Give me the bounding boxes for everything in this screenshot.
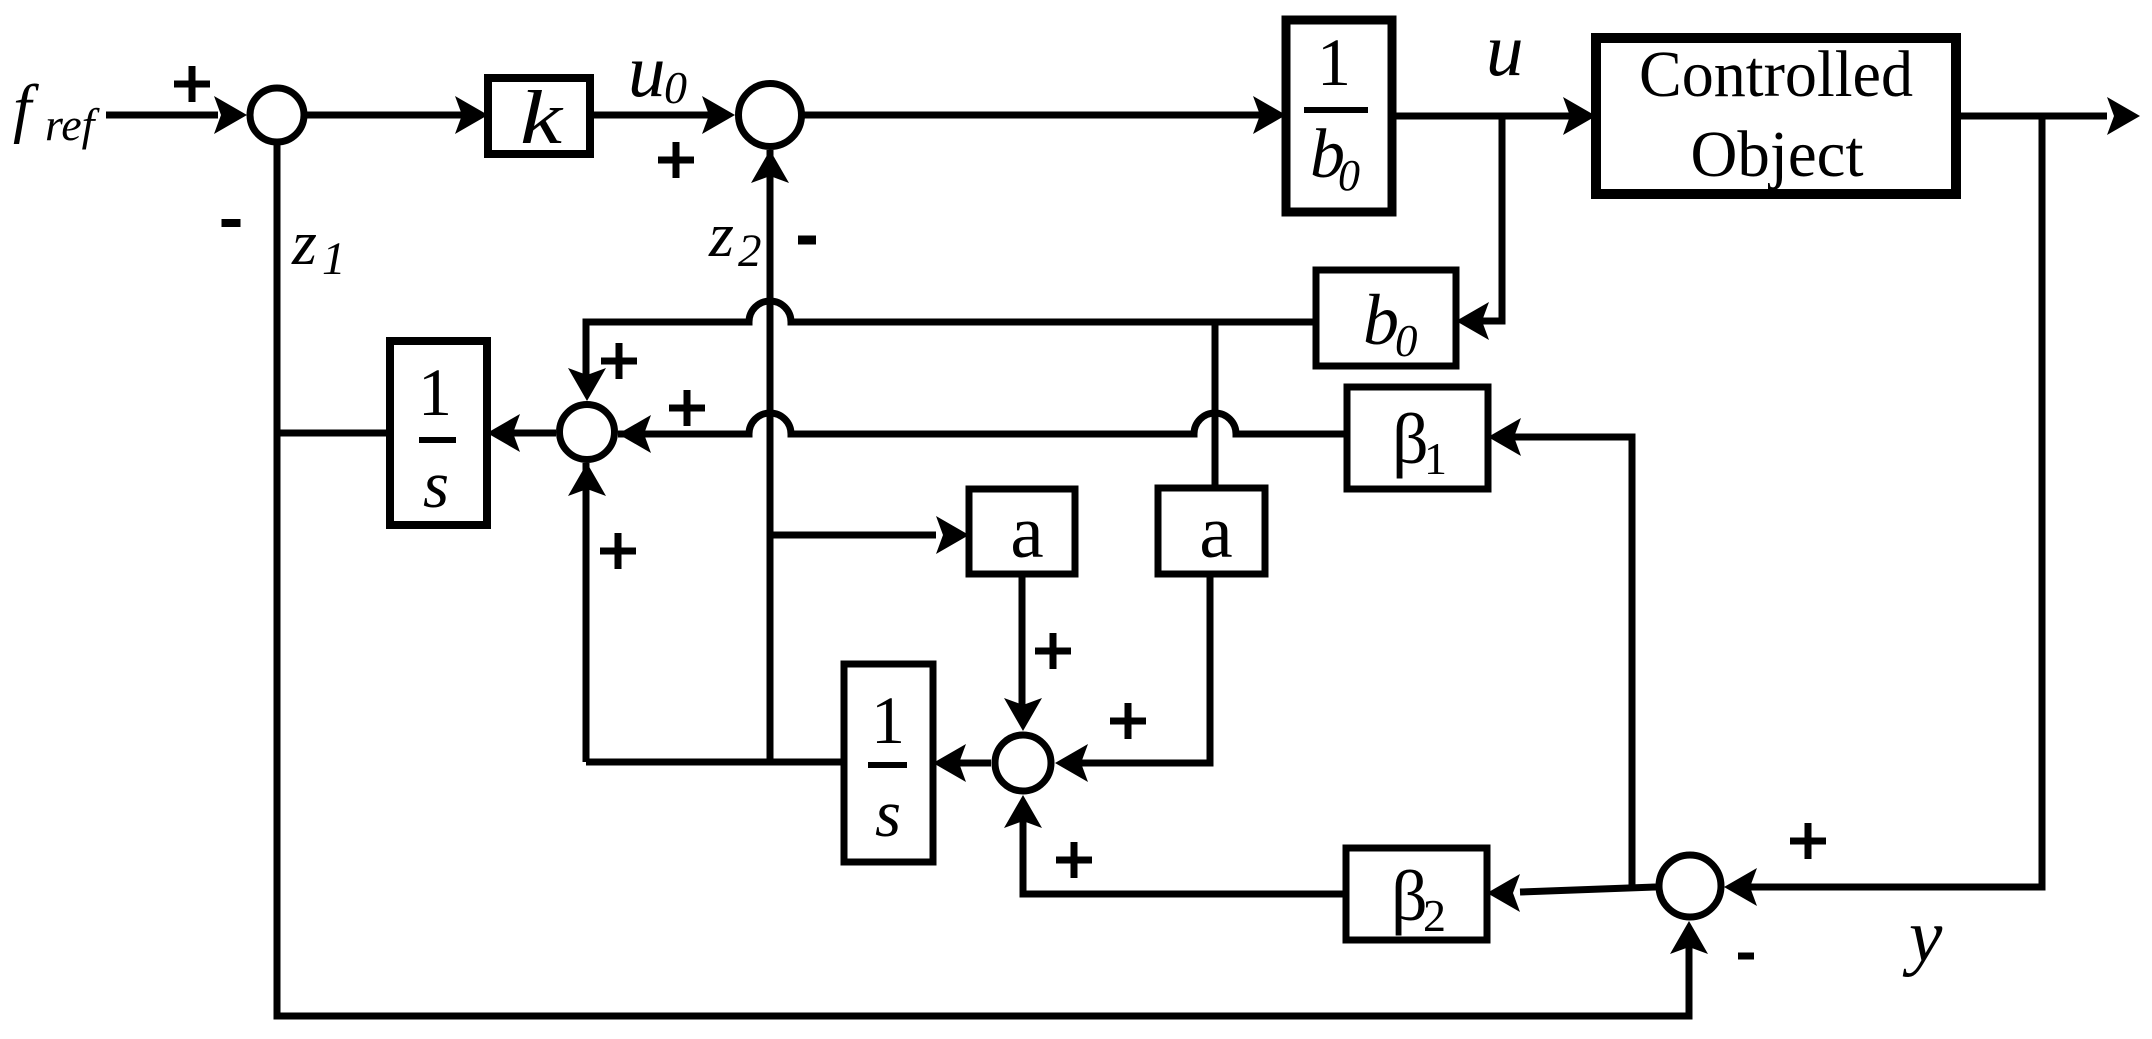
block beta1 [1347,387,1488,489]
wire k to sum S2 [590,96,735,134]
wire integrator1 out to z1 line [277,430,390,437]
svg-text:2: 2 [738,225,762,277]
node u0 label [628,30,687,113]
summing junction S5 [1659,855,1721,917]
plus sign at S5 y input [1790,823,1826,859]
block Controlled Object [1596,38,1956,194]
svg-text:Object: Object [1691,118,1864,191]
wire z2 branch to gain a1 [770,516,969,554]
wire u branch down to b0 [1456,113,1502,340]
wire integrator2 out along z2 row [586,759,844,766]
arrowhead into S3 top [568,368,606,401]
wire z1 bottom feedback [277,921,1708,1016]
arrowhead into sum S1 [214,96,247,134]
svg-text:ref: ref [45,99,101,150]
block beta2 [1346,848,1487,941]
svg-text:z: z [708,199,734,270]
svg-text:1: 1 [1317,24,1351,100]
node f_ref input label [13,72,101,150]
plus sign at S4 top input [1035,633,1071,669]
gain block a second [1158,488,1265,574]
wire error branch up to beta1 [1488,418,1632,891]
svg-text:k: k [520,76,564,160]
plus sign at S2 u0 input [658,142,694,178]
minus sign at S1 z1 input [222,219,241,227]
svg-text:y: y [1902,895,1943,978]
node z2 label [708,199,762,277]
svg-text:s: s [875,777,901,851]
svg-text:b: b [1363,280,1399,360]
summing junction S4 [995,735,1051,791]
wire S4 to integrator 2 [933,744,991,782]
svg-text:2: 2 [1423,890,1446,941]
wire 1/b0 to Controlled Object [1392,97,1596,135]
wire plant output [1956,97,2140,135]
node u label [1486,9,1524,92]
summing junction S3 [560,405,615,460]
gain block a first [969,489,1075,574]
summing junction S1 [250,88,304,142]
plus sign at S3 right input [669,390,705,426]
wire z2 vertical to sum S2 [751,150,789,762]
wire a2 output to sum S4 right [1055,574,1210,782]
svg-text:0: 0 [1395,316,1418,366]
wire z1 vertical [274,145,281,1014]
plus sign at S3 bottom input [600,533,636,569]
svg-text:a: a [1010,491,1043,574]
svg-text:1: 1 [871,682,905,758]
minus sign at S2 z2 input [798,236,816,245]
integrator block 1/s first [390,341,487,525]
wire b0 output to sum S3 top (hop over z2) [586,301,1316,375]
wire beta2 output to S4 bottom [1004,795,1346,894]
minus sign at S5 z1 input [1738,953,1754,960]
block b0 [1316,270,1456,366]
wire S3 bottom input from z2 row [568,463,606,762]
wire error to beta2 [1487,874,1656,912]
wire beta1 to S3 (hops over z2 and a2 lines) [618,413,1347,453]
svg-text:a: a [1199,491,1232,574]
wire S3 to integrator 1 [487,414,556,452]
summing junction S2 [739,84,802,147]
plus sign at S4 bottom input [1056,842,1092,878]
plus sign at S1 input [174,66,210,102]
wire S1 to gain k [304,96,488,134]
svg-text:Controlled: Controlled [1639,38,1913,111]
node y label [1902,895,1943,978]
plus sign at S4 right input [1110,703,1146,739]
svg-text:s: s [423,448,449,522]
svg-text:u: u [1486,9,1524,92]
node z1 label [291,207,346,285]
svg-text:1: 1 [322,233,346,285]
wire branch b0 line down to gain a2 [1212,322,1219,489]
wire output branch down to y feedback [1748,113,2042,887]
wire y to sum S5 [1724,868,1757,906]
block 1/b0 [1286,20,1392,212]
svg-text:0: 0 [664,62,687,113]
svg-text:z: z [291,207,317,278]
svg-text:0: 0 [1338,151,1360,200]
svg-text:u: u [628,30,666,113]
wire a1 output down to sum S4 [1004,574,1042,731]
wire S2 to block 1/b0 [801,96,1286,134]
wire f_ref to sum S1 [106,112,218,119]
svg-text:1: 1 [1424,433,1447,484]
gain block k [488,76,590,160]
plus sign at S3 top input [601,343,637,379]
integrator block 1/s second [844,664,933,862]
svg-text:1: 1 [418,354,452,430]
